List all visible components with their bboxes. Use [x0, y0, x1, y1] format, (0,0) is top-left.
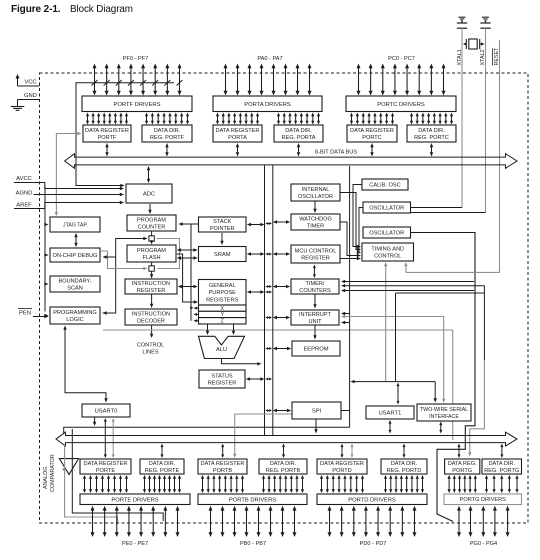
bus arrow interrupt unit left	[276, 317, 287, 319]
svg-text:INSTRUCTION: INSTRUCTION	[132, 281, 170, 287]
bus arrow timer/counters left	[276, 286, 287, 288]
connector data register PORTA to data bus	[237, 146, 239, 153]
wire ADC to program counter	[149, 204, 151, 211]
JTAG TAP	[50, 217, 100, 232]
svg-text:ON-CHIP DEBUG: ON-CHIP DEBUG	[53, 253, 98, 259]
WATCHDOG TIMER	[291, 214, 340, 230]
svg-text:PORTG: PORTG	[452, 468, 472, 474]
gray wire SPI to PORTB	[233, 414, 292, 458]
svg-text:REG. PORTG: REG. PORTG	[484, 468, 519, 474]
svg-text:DECODER: DECODER	[137, 319, 165, 325]
arrows PORTF drivers to data register PORTF	[86, 113, 128, 125]
arrows data dir reg PORTG to drivers	[485, 475, 519, 493]
AGND pin and wire to ADC	[16, 191, 124, 197]
connector data bus to data dir reg PORTB	[283, 446, 285, 455]
bus arrow stack pointer right	[250, 224, 261, 226]
PORTB drivers	[198, 494, 307, 505]
gray connector USART0 to data register PORTE	[112, 421, 114, 456]
wire SPI to data bus	[315, 420, 317, 431]
svg-text:DATA REGISTER: DATA REGISTER	[85, 128, 129, 134]
connector data bus to data dir reg PORTG	[501, 446, 503, 455]
svg-text:COUNTER: COUNTER	[138, 225, 166, 231]
svg-text:AGND: AGND	[16, 191, 33, 197]
PEN pin and wire	[18, 309, 49, 319]
svg-text:PORTE: PORTE	[96, 468, 115, 474]
EEPROM	[292, 341, 340, 356]
bus arrow watchdog timer left	[276, 221, 287, 223]
TIMER/COUNTERS	[291, 279, 339, 294]
arrows PORTC drivers to data register PORTC	[350, 113, 394, 125]
svg-text:PROGRAMMING: PROGRAMMING	[53, 310, 97, 316]
PORTF drivers	[82, 96, 192, 112]
data dir. reg. PORTF	[142, 125, 192, 142]
svg-text:PC0 - PC7: PC0 - PC7	[388, 56, 415, 62]
XTAL1 ground symbol and capacitor	[457, 17, 467, 28]
bus arrow status register right	[249, 378, 261, 380]
svg-text:COMPARATOR: COMPARATOR	[50, 454, 56, 492]
wires timer/counters to oscillator TOSC	[341, 280, 484, 292]
svg-text:PORTE DRIVERS: PORTE DRIVERS	[111, 497, 158, 503]
wire RESET to timing and control	[404, 262, 499, 272]
wire stack pointer to SRAM	[221, 233, 223, 242]
svg-text:SPI: SPI	[312, 409, 322, 415]
data register PORTF	[83, 125, 131, 142]
chip dashed border	[40, 73, 529, 523]
arrows PORTA drivers to data dir reg PORTA	[277, 113, 320, 125]
arrows data register PORTB to drivers	[201, 475, 244, 493]
svg-text:PURPOSE: PURPOSE	[209, 290, 237, 296]
svg-text:DATA REGISTER: DATA REGISTER	[216, 128, 260, 134]
connector data bus to data register PORTB	[222, 446, 224, 455]
comparator positive input wire	[65, 444, 118, 523]
svg-text:PORTD: PORTD	[332, 468, 351, 474]
svg-text:PEN: PEN	[19, 311, 31, 317]
svg-text:GENERAL: GENERAL	[209, 283, 236, 289]
AREF pin and wire to ADC	[14, 201, 124, 209]
svg-text:TWO-WIRE SERIAL: TWO-WIRE SERIAL	[420, 407, 468, 413]
svg-text:OSCILLATOR: OSCILLATOR	[369, 206, 404, 212]
VCC pin	[16, 74, 40, 86]
OSCILLATOR U1	[363, 202, 411, 213]
svg-text:REG. PORTB: REG. PORTB	[266, 468, 301, 474]
STACK POINTER	[199, 217, 247, 232]
arrows data dir reg PORTD to drivers	[384, 475, 424, 493]
svg-text:REGISTERS: REGISTERS	[206, 297, 239, 303]
bus arrow instruction register to GPR	[181, 286, 195, 288]
wire oscillator1 to XTAL1	[411, 207, 462, 209]
svg-text:REG. PORTF: REG. PORTF	[150, 135, 185, 141]
node square below program flash	[149, 266, 154, 271]
XTAL1 wire	[461, 28, 463, 207]
svg-text:DATA DIR.: DATA DIR.	[391, 461, 418, 467]
svg-text:PF0 - PF7: PF0 - PF7	[123, 56, 149, 62]
svg-text:PORTA DRIVERS: PORTA DRIVERS	[244, 102, 291, 108]
svg-text:DATA DIR.: DATA DIR.	[418, 128, 445, 134]
connector data bus to data dir reg PORTE	[161, 446, 163, 455]
svg-text:DATA REGISTER: DATA REGISTER	[320, 461, 364, 467]
PORTC drivers	[346, 96, 456, 112]
svg-text:MCU CONTROL: MCU CONTROL	[295, 248, 337, 254]
wire internal oscillator to watchdog timer	[314, 202, 316, 210]
8-bit data bus (bottom)	[56, 432, 517, 446]
CALIB. OSC	[362, 179, 408, 190]
wire oscillator1 to XTAL2	[411, 212, 486, 214]
svg-text:STATUS: STATUS	[211, 373, 233, 379]
wires interrupt unit right	[341, 312, 350, 324]
svg-text:ANALOG: ANALOG	[43, 467, 49, 489]
svg-text:LOGIC: LOGIC	[66, 317, 83, 323]
svg-text:PB0 - PB7: PB0 - PB7	[240, 541, 266, 547]
ADC U-ADC	[126, 184, 172, 203]
svg-text:INTERNAL: INTERNAL	[302, 187, 330, 193]
PORTE drivers	[80, 494, 190, 505]
svg-text:INSTRUCTION: INSTRUCTION	[132, 311, 170, 317]
arrows X Y Z to indirect addressing line	[194, 307, 199, 323]
GENERAL PURPOSE REGISTERS	[199, 280, 247, 306]
svg-text:DATA DIR.: DATA DIR.	[488, 461, 515, 467]
svg-text:TIMER: TIMER	[307, 224, 324, 230]
TWO-WIRE SERIAL INTERFACE	[417, 404, 471, 421]
arrows PORTA drivers to data register PORTA	[216, 113, 259, 125]
svg-text:DATA REG.: DATA REG.	[448, 461, 477, 467]
wire watchdog to timing and control	[341, 222, 362, 257]
USART1	[366, 406, 414, 419]
wire left JTAG chain	[44, 186, 48, 317]
PORTD pin arrows PD0-PD7	[328, 506, 417, 537]
gray wire timing to PORTG data register	[468, 360, 484, 457]
arrows data reg PORTG to drivers	[448, 475, 477, 493]
svg-text:PORTF DRIVERS: PORTF DRIVERS	[114, 102, 161, 108]
data register PORTE	[80, 459, 131, 474]
svg-text:COUNTERS: COUNTERS	[299, 288, 331, 294]
wire timing and control bottom to serial area	[384, 262, 387, 382]
register Z	[199, 318, 247, 324]
svg-text:POINTER: POINTER	[210, 226, 235, 232]
svg-text:CONTROL: CONTROL	[137, 343, 164, 349]
node square between program counter and program flash	[149, 236, 154, 241]
wire program flash to general purpose registers	[177, 254, 198, 304]
svg-text:DATA REGISTER: DATA REGISTER	[350, 128, 394, 134]
arrows data dir reg PORTB to drivers	[262, 475, 304, 493]
svg-text:PD0 - PD7: PD0 - PD7	[360, 541, 387, 547]
serial wire above data bus	[64, 427, 350, 434]
svg-text:XTAL2: XTAL2	[480, 49, 486, 65]
svg-text:WATCHDOG: WATCHDOG	[299, 216, 332, 222]
BOUNDARY-SCAN	[50, 276, 100, 292]
svg-text:Z: Z	[221, 319, 224, 325]
wire internal oscillator to timing and control	[341, 193, 362, 252]
svg-text:TIMER/: TIMER/	[306, 281, 325, 287]
svg-text:Block Diagram: Block Diagram	[70, 4, 133, 15]
wire calib osc to timing and control	[353, 185, 362, 249]
USART0	[82, 404, 130, 417]
wire ALU output to internal bus	[222, 359, 262, 366]
svg-text:XTAL1: XTAL1	[457, 49, 463, 65]
data register PORTC	[347, 125, 397, 142]
STATUS REGISTER	[199, 370, 245, 388]
arrows between internal bus lines	[265, 222, 272, 412]
control lines label	[137, 326, 164, 356]
ADC multiplexer wire to PORTF pins	[76, 80, 183, 187]
wire programming logic to USART0	[63, 326, 107, 403]
INSTRUCTION REGISTER	[125, 279, 177, 294]
INTERNAL OSCILLATOR	[291, 184, 340, 201]
wire oscillator2 TOSC to PORTG drivers	[411, 233, 475, 522]
wire instruction register to instruction decoder	[151, 295, 153, 305]
wire program flash to lower node	[151, 263, 153, 266]
svg-text:PORTB DRIVERS: PORTB DRIVERS	[229, 497, 276, 503]
PROGRAM COUNTER	[127, 215, 176, 231]
connector data bus to data dir reg PORTD	[403, 446, 405, 455]
wire programming logic to flash node	[103, 237, 148, 315]
black wire network right side	[396, 286, 485, 382]
gray connector to data register PORTD	[351, 446, 353, 455]
svg-text:CONTROL: CONTROL	[374, 254, 401, 260]
data register PORTB	[198, 459, 247, 474]
RESET label	[492, 47, 500, 66]
data register PORTA	[213, 125, 262, 142]
svg-text:STACK: STACK	[213, 219, 232, 225]
svg-text:USART0: USART0	[95, 409, 118, 415]
PORTG pin arrows PG0-PG4	[457, 506, 510, 537]
svg-text:VCC: VCC	[24, 80, 36, 86]
svg-text:AREF: AREF	[16, 203, 32, 209]
svg-text:GND: GND	[24, 93, 37, 99]
internal bus vertical line 2	[272, 166, 274, 436]
analog comparator	[59, 459, 78, 475]
INSTRUCTION DECODER	[125, 309, 177, 325]
svg-text:DATA DIR.: DATA DIR.	[154, 128, 181, 134]
connector JTAG TAP to on-chip debug	[75, 236, 77, 244]
svg-text:REG. PORTC: REG. PORTC	[414, 135, 449, 141]
svg-text:ADC: ADC	[143, 192, 155, 198]
svg-text:8-BIT DATA BUS: 8-BIT DATA BUS	[315, 150, 357, 156]
svg-text:REGISTER: REGISTER	[208, 381, 237, 387]
SPI	[292, 402, 341, 419]
arrows PORTC drivers to data dir reg PORTC	[410, 113, 453, 125]
wire program counter to node	[151, 232, 153, 236]
arrows PORTF drivers to data dir reg PORTF	[145, 113, 189, 125]
wire timer to interrupt unit	[314, 295, 316, 306]
PORTA drivers	[213, 96, 322, 112]
svg-text:DATA REGISTER: DATA REGISTER	[84, 461, 128, 467]
svg-text:PORTD DRIVERS: PORTD DRIVERS	[348, 497, 396, 503]
MCU CONTROL REGISTER	[291, 245, 340, 263]
PORTB pin arrows PB0-PB7	[209, 506, 297, 537]
bus arrows program flash to SRAM	[177, 248, 198, 259]
data dir. reg. PORTC	[407, 125, 456, 142]
wire oscillator 1 to timing and control	[357, 208, 363, 255]
svg-text:DATA DIR.: DATA DIR.	[149, 461, 176, 467]
on-chip debug gray access loop	[101, 239, 180, 271]
svg-text:REGISTER: REGISTER	[301, 256, 330, 262]
data dir. reg. PORTB	[259, 459, 307, 474]
bus arrow SRAM right	[250, 253, 261, 255]
svg-text:JTAG TAP: JTAG TAP	[63, 222, 87, 228]
connector data register PORTF to data bus	[106, 146, 108, 153]
svg-text:TIMING AND: TIMING AND	[371, 246, 404, 252]
svg-text:OSCILLATOR: OSCILLATOR	[369, 231, 404, 237]
connector data bus to ADC	[148, 169, 150, 180]
SRAM	[199, 247, 247, 262]
RESET wire	[499, 40, 501, 272]
connector data bus to data register PORTD	[341, 446, 343, 455]
svg-text:AVCC: AVCC	[16, 176, 32, 182]
connector data bus to data reg PORTG	[458, 446, 460, 455]
svg-text:INTERRUPT: INTERRUPT	[299, 312, 332, 318]
svg-text:FLASH: FLASH	[142, 255, 160, 261]
wire USART0 to bus wire	[94, 418, 96, 423]
XTAL2 wire	[485, 28, 487, 212]
comparator negative input wire	[72, 429, 163, 521]
wire node to program flash	[151, 240, 153, 242]
wire JTAG to data register PORTF	[55, 132, 82, 216]
wires GPR to ALU	[206, 325, 235, 336]
serial control wire	[350, 380, 437, 403]
arrows data register PORTD to drivers	[320, 475, 364, 493]
svg-text:RESET: RESET	[494, 47, 500, 66]
ON-CHIP DEBUG	[50, 248, 100, 262]
connector data dir reg PORTC to data bus	[431, 146, 433, 153]
svg-text:PROGRAM: PROGRAM	[137, 248, 166, 254]
svg-text:PROGRAM: PROGRAM	[137, 217, 166, 223]
data register PORTD	[317, 459, 367, 474]
svg-text:EEPROM: EEPROM	[303, 347, 328, 353]
svg-text:LINES: LINES	[142, 350, 158, 356]
register X	[199, 305, 247, 311]
svg-text:CALIB. OSC: CALIB. OSC	[369, 183, 400, 189]
internal bus vertical line 1	[264, 166, 266, 436]
wire interrupt unit to EEPROM	[314, 326, 316, 337]
svg-text:REGISTER: REGISTER	[137, 288, 166, 294]
svg-text:REG. PORTA: REG. PORTA	[282, 135, 316, 141]
svg-text:PORTF: PORTF	[98, 135, 117, 141]
data dir. reg. PORTD	[381, 459, 427, 474]
register Y	[199, 311, 247, 317]
bus arrow SPI left	[276, 410, 288, 412]
wire stack pointer to program counter	[182, 223, 199, 225]
wire SPI right to vertical line	[341, 410, 349, 412]
svg-text:DATA REGISTER: DATA REGISTER	[201, 461, 245, 467]
gray wire interrupt to portg column	[341, 315, 445, 403]
svg-text:REG. PORTD: REG. PORTD	[387, 468, 422, 474]
svg-text:OSCILLATOR: OSCILLATOR	[298, 194, 333, 200]
PORTA pin arrows PA0-PA7	[224, 64, 312, 96]
svg-text:PA0 - PA7: PA0 - PA7	[257, 56, 282, 62]
svg-text:ALU: ALU	[216, 347, 227, 353]
GND pin	[18, 93, 40, 107]
arrows data dir reg PORTE to drivers	[143, 475, 181, 493]
PORTC pin arrows PC0-PC7	[357, 64, 446, 96]
svg-text:USART1: USART1	[379, 411, 402, 417]
svg-text:DATA DIR.: DATA DIR.	[285, 128, 312, 134]
connector control to USART1	[397, 385, 399, 402]
ALU	[199, 336, 245, 358]
PORTG drivers	[444, 494, 522, 505]
wire node to instruction register	[151, 271, 153, 275]
PROGRAMMING LOGIC	[50, 307, 100, 324]
OSCILLATOR U2	[363, 227, 411, 238]
connector data dir reg PORTF to data bus	[166, 146, 168, 153]
indirect addressing wire X Y Z to SRAM	[190, 224, 193, 321]
connector data dir reg PORTA to data bus	[298, 146, 300, 153]
internal vertical line right of interrupt column	[349, 166, 351, 427]
bus arrow EEPROM left	[276, 348, 288, 350]
PORTE pin arrows PE0-PE7	[91, 506, 180, 537]
svg-text:PORTC: PORTC	[362, 135, 381, 141]
connector data register PORTC to data bus	[371, 146, 373, 153]
analog comparator label	[43, 454, 56, 492]
TIMING AND CONTROL	[362, 243, 414, 261]
gray control wire across to PORTG	[103, 330, 453, 440]
connector USART1 to data bus	[389, 423, 391, 431]
bus arrow MCU control register left	[276, 253, 287, 255]
arrows data register PORTE to drivers	[83, 475, 128, 493]
svg-text:PORTG DRIVERS: PORTG DRIVERS	[460, 497, 506, 503]
crystal Y1	[463, 39, 485, 49]
8-bit data bus (top)	[65, 154, 517, 169]
title figure caption	[11, 4, 133, 15]
AVCC pin and wire to ADC	[14, 176, 124, 190]
connector two-wire serial interface to data bus	[440, 424, 442, 431]
svg-text:PORTA: PORTA	[228, 135, 247, 141]
PROGRAM FLASH	[127, 245, 176, 262]
svg-text:UNIT: UNIT	[308, 319, 322, 325]
connector USART0 to data register PORTE	[104, 421, 106, 456]
PORTD drivers	[317, 494, 427, 505]
svg-text:PORTB: PORTB	[213, 468, 232, 474]
svg-text:REG. PORTE: REG. PORTE	[145, 468, 180, 474]
data dir. reg. PORTE	[140, 459, 184, 474]
bus arrow GPR right	[250, 291, 261, 293]
svg-text:PE0 - PE7: PE0 - PE7	[122, 541, 148, 547]
wire mcu control register to timing and control	[341, 257, 362, 260]
svg-text:PG0 - PG4: PG0 - PG4	[470, 541, 497, 547]
INTERRUPT UNIT	[291, 310, 339, 325]
svg-text:SCAN: SCAN	[67, 286, 83, 292]
svg-text:Figure 2-1.: Figure 2-1.	[11, 4, 61, 15]
data reg. PORTG	[445, 459, 480, 474]
PORTF pin arrows PF0-PF7	[93, 64, 182, 96]
wire mcu control to timer/counters	[313, 267, 315, 275]
svg-text:PORTC DRIVERS: PORTC DRIVERS	[377, 102, 425, 108]
svg-text:BOUNDARY-: BOUNDARY-	[59, 278, 92, 284]
data dir. reg. PORTA	[274, 125, 323, 142]
svg-text:INTERFACE: INTERFACE	[429, 414, 459, 420]
XTAL2 ground symbol and capacitor	[480, 17, 490, 28]
ground symbol	[11, 107, 25, 111]
data dir. reg. PORTG	[482, 459, 522, 474]
svg-text:DATA DIR.: DATA DIR.	[270, 461, 297, 467]
svg-text:SRAM: SRAM	[214, 252, 231, 258]
